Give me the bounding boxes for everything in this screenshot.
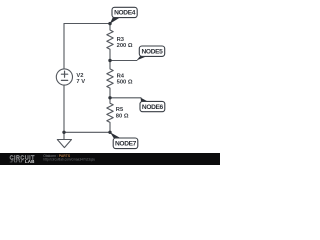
wire top rail [64,23,110,25]
svg-text:http://circuitlab.com/cmaa347n: http://circuitlab.com/cmaa347n23qsu [43,157,95,161]
svg-text:80 Ω: 80 Ω [116,114,129,120]
ground [57,140,71,148]
voltage source V2 [56,69,72,85]
svg-text:LAB: LAB [25,159,35,164]
junction R3-R4 (node5) [108,59,111,62]
node NODE5 flag [137,46,165,60]
wire bottom rail [64,131,110,133]
node NODE4 flag [110,7,137,24]
svg-text:V2: V2 [76,73,83,79]
resistor R5 [107,98,113,133]
junction R5-bottom (node7) [108,131,111,134]
footer circuitlab logo [10,156,36,165]
svg-text:NODE6: NODE6 [142,104,164,111]
resistor R4 [107,61,113,98]
svg-text:NODE5: NODE5 [142,49,164,56]
wire left rail lower [63,85,65,139]
junction top (node4) [108,22,111,25]
resistor R3 [107,24,113,61]
footer bar [0,153,220,165]
svg-text:NODE4: NODE4 [114,10,136,17]
junction ground [62,131,65,134]
wire left rail upper [63,24,65,69]
svg-text:200 Ω: 200 Ω [117,43,133,49]
wire node5 stub [110,60,137,62]
svg-text:R4: R4 [117,73,125,79]
junction R4-R5 (node6) [108,96,111,99]
svg-text:500 Ω: 500 Ω [117,80,133,86]
svg-text:7 V: 7 V [76,79,85,85]
wire node6 stub [110,97,141,99]
svg-text:NODE7: NODE7 [115,141,137,148]
svg-text:R5: R5 [116,107,124,113]
node NODE7 flag [110,132,138,148]
node NODE6 flag [140,98,165,112]
